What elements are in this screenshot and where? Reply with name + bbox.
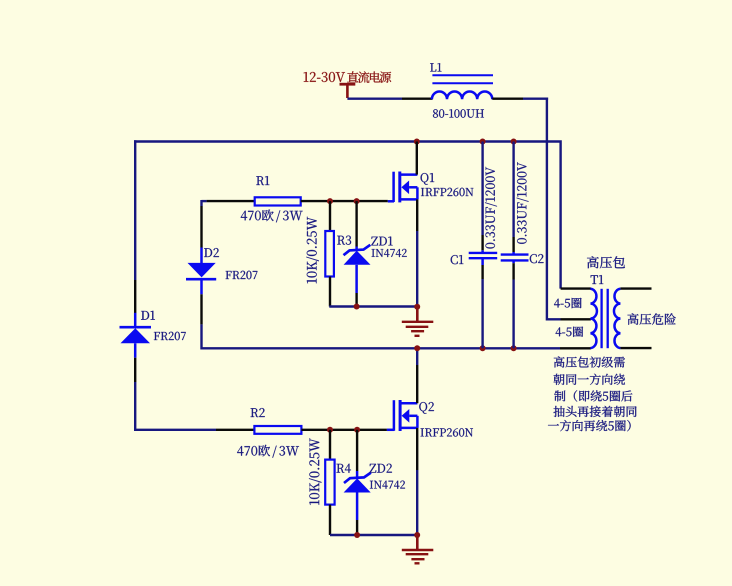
- capacitor C1 top lead: [481, 142, 483, 236]
- zener diode ZD2 lead top: [356, 430, 358, 471]
- label R3: [337, 236, 351, 245]
- wire: to R2 (black): [216, 429, 254, 431]
- label IRFP260N of Q1: [421, 188, 473, 196]
- capacitor C2 bottom lead: [512, 260, 515, 263]
- label R2: [251, 408, 265, 417]
- label C1: [451, 255, 464, 264]
- junction on middle rail at Q2 drain: [414, 345, 420, 351]
- power input port symbol: [340, 83, 356, 86]
- junction at ZD2 bottom: [354, 532, 360, 538]
- junction at Q1 source / ground: [414, 304, 420, 310]
- middle rail wire (Q2 drain net): [417, 347, 560, 349]
- junction on middle rail at C2: [511, 345, 517, 351]
- junction on top rail at Q1 drain: [414, 139, 420, 145]
- label IN4742 of ZD1: [372, 249, 407, 257]
- junction at ZD1 bottom: [354, 304, 360, 310]
- wire: transformer bottom-left pin: [560, 347, 591, 349]
- label FR207 of D1: [154, 332, 186, 340]
- label ZD2: [370, 464, 392, 473]
- wire: middle rail to Q2 drain: [416, 348, 418, 365]
- label IRFP260N of Q2: [421, 428, 473, 436]
- junction on middle rail at C1: [480, 345, 486, 351]
- mosfet Q2 (IRFP260N): [387, 429, 394, 432]
- label 0.33UF/1200V of C2 (rotated): [517, 162, 529, 244]
- inductor L1 core lines: [432, 74, 493, 76]
- label 10K/0.25W of R3 (rotated): [306, 217, 318, 284]
- resistor R4 lead bottom: [329, 505, 331, 535]
- label 高压包: [587, 256, 625, 268]
- power supply label '12-30V': [304, 72, 345, 82]
- wire: transformer top-left pin: [561, 287, 591, 289]
- ground symbol (bottom): [416, 535, 419, 550]
- wire: vertical down to transformer center tap: [547, 98, 561, 320]
- label R1: [256, 176, 269, 185]
- capacitor C1 (0.33UF/1200V): [469, 252, 498, 254]
- annotation text line 1: 高压包初级需: [554, 356, 625, 367]
- transformer T1 primary winding (left): [591, 289, 597, 348]
- mosfet Q1 (IRFP260N): [388, 200, 394, 203]
- junction at Q2 source / ground: [414, 532, 420, 538]
- junction at R3 top: [327, 198, 333, 204]
- zener ZD2 lead bottom: [356, 520, 358, 535]
- annotation text line 4: 抽头再接着朝同: [554, 406, 637, 417]
- resistor R3 lead top: [329, 201, 331, 231]
- wire: D2 to middle rail corner: [200, 294, 202, 324]
- label 4-5圈 (upper primary): [554, 298, 582, 308]
- capacitor C2 (0.33UF/1200V): [501, 253, 529, 255]
- junction on top rail at C1: [480, 139, 486, 145]
- junction at R4 top: [327, 427, 333, 433]
- label FR207 of D2: [226, 271, 258, 279]
- label 470欧 / 3W of R2: [237, 445, 299, 458]
- resistor R3 (10K/0.25W): [325, 231, 334, 277]
- resistor R4 (10K/0.25W): [325, 460, 334, 505]
- node wire: R3/ZD1 bottom to Q1 source: [329, 305, 417, 307]
- label D2: [204, 248, 219, 257]
- wire: Q2 source to ground node: [416, 428, 418, 470]
- resistor R1 (470ohm/3W): [255, 197, 301, 205]
- wire: Q1 drain to top rail: [416, 142, 418, 175]
- junction on top rail at C2: [511, 139, 517, 145]
- label IN4742 of ZD2: [370, 481, 405, 489]
- wire: secondary top pin: [620, 287, 651, 289]
- label C2: [530, 254, 544, 263]
- label D1: [141, 311, 155, 320]
- wire: Q1 source down to ground node: [416, 199, 418, 231]
- bottom gate-network wire: [330, 534, 417, 536]
- zener diode ZD2 (IN4742): [344, 473, 371, 483]
- wire: left branch from top rail to D1: [134, 140, 136, 280]
- resistor R3 lead bottom: [329, 277, 331, 307]
- label Q2: [419, 402, 434, 414]
- label ZD1: [371, 237, 392, 246]
- ground symbol (top): [416, 307, 419, 322]
- wire: D1 to Q2 gate wire corner: [134, 358, 136, 382]
- wire: secondary bottom pin: [620, 347, 651, 349]
- label Q1: [421, 173, 435, 185]
- label 高压危险: [628, 313, 676, 325]
- transformer T1 secondary winding (right): [614, 289, 620, 348]
- label 0.33UF/1200V of C1 (rotated): [485, 167, 497, 249]
- label 80-100UH: [433, 109, 484, 117]
- diode D2 (FR207, cathode down): [200, 248, 203, 264]
- wire: power to L1 (black part): [402, 97, 433, 99]
- zener diode ZD1 (IN4742): [344, 245, 371, 255]
- capacitor C2 top lead: [512, 142, 514, 238]
- junction at ZD1 top: [354, 198, 360, 204]
- junction at ZD2 top: [354, 427, 360, 433]
- gate wire of Q1 from corner: [202, 200, 207, 202]
- resistor R2 (470ohm/3W): [254, 426, 301, 434]
- label 4-5圈 (lower primary): [556, 327, 584, 337]
- wire: R2 to Q2 gate: [301, 429, 387, 431]
- inductor L1 winding: [432, 92, 492, 100]
- label L1: [430, 63, 441, 71]
- zener ZD1 lead bottom: [355, 293, 357, 307]
- label 10K/0.25W of R4 (rotated): [309, 438, 321, 505]
- zener diode ZD1 lead top: [355, 201, 357, 246]
- capacitor C1 bottom lead: [481, 258, 484, 265]
- resistor R4 lead top: [329, 430, 331, 460]
- transformer T1 core: [600, 289, 602, 348]
- annotation text line 2: 朝同一方向绕: [554, 374, 625, 385]
- label T1: [591, 275, 604, 284]
- cross-coupling branch: corner to D2: [200, 200, 202, 206]
- power supply label '直流电源': [347, 71, 391, 82]
- wire: power to L1 (navy part): [347, 97, 402, 99]
- diode D1 (FR207, cathode up): [134, 313, 137, 328]
- label 470欧 / 3W of R1: [241, 210, 303, 223]
- label R4: [337, 464, 351, 473]
- wire: L1 to right corner: [492, 97, 523, 99]
- wire: R1 to Q1 gate: [301, 200, 388, 202]
- top rail wire (Q1 drain net): [134, 142, 561, 289]
- annotation text line 5: 一方向再绕5圈）: [548, 420, 631, 431]
- annotation text line 3: 制（即绕5圈后: [554, 390, 632, 401]
- wire: center tap black segment: [561, 318, 591, 320]
